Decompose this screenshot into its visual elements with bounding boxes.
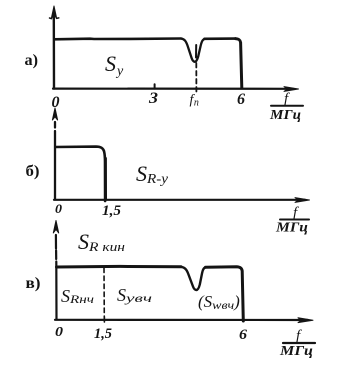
plot b: spectrum curve S R-y rectangle with rounded corner	[56, 147, 106, 201]
plot v: spectrum notch	[181, 267, 206, 290]
plot v: spectrum bump right of notch	[206, 267, 244, 321]
svg-text:МГц: МГц	[279, 343, 313, 358]
plot a: y-axis	[53, 14, 56, 89]
svg-text:а): а)	[25, 52, 39, 69]
plot v: tick at 1,5	[103, 317, 105, 322]
svg-text:1,5: 1,5	[102, 203, 122, 219]
plot v: y-axis arrowhead	[53, 221, 58, 234]
svg-text:6: 6	[237, 91, 245, 108]
svg-text:МГц: МГц	[269, 107, 301, 122]
plot b: x-axis	[54, 199, 305, 201]
svg-text:0: 0	[55, 325, 63, 340]
plot a: spectrum flat top right of notch	[205, 37, 236, 40]
plot a: spectrum right rounded corner and steep edge at 6 MHz	[236, 39, 242, 88]
svg-text:МГц: МГц	[275, 220, 308, 235]
plot b: x-axis arrowhead	[295, 198, 310, 203]
plot v: x-axis arrowhead	[298, 318, 313, 323]
plot a: spectrum notch at fn	[181, 39, 205, 62]
svg-text:в): в)	[26, 275, 41, 292]
plot a: tick at 3 MHz	[154, 84, 156, 88]
plot a: fraction bar	[271, 105, 303, 107]
svg-text:0: 0	[55, 201, 63, 216]
svg-text:3: 3	[148, 90, 158, 107]
plot v: fraction bar	[283, 342, 315, 344]
plot b: right edge double stroke	[105, 158, 107, 200]
plot b: y-axis	[54, 122, 56, 200]
plot a: x-axis	[53, 87, 293, 89]
svg-text:б): б)	[26, 163, 40, 180]
plot a: mark inside notch	[195, 45, 197, 58]
svg-text:1,5: 1,5	[94, 326, 112, 342]
plot a: spectrum curve Sy flat top left of notch	[55, 37, 182, 40]
svg-text:6: 6	[239, 327, 248, 343]
plot v: spectrum flat top left of notch (thick)	[57, 265, 182, 269]
plot v: dashed divider at 1,5 MHz	[103, 268, 105, 319]
plot b: fraction bar	[280, 219, 309, 221]
plot a: y-axis arrow barbs	[50, 17, 59, 20]
plot a: y-axis arrowhead	[51, 6, 56, 19]
plot a: x-axis arrowhead	[284, 87, 299, 92]
plot a: dashed line at fn down to axis	[195, 63, 197, 93]
plot b: y-axis arrowhead	[52, 108, 57, 120]
plot v: y-axis	[55, 235, 58, 320]
plot v: x-axis	[55, 319, 308, 321]
